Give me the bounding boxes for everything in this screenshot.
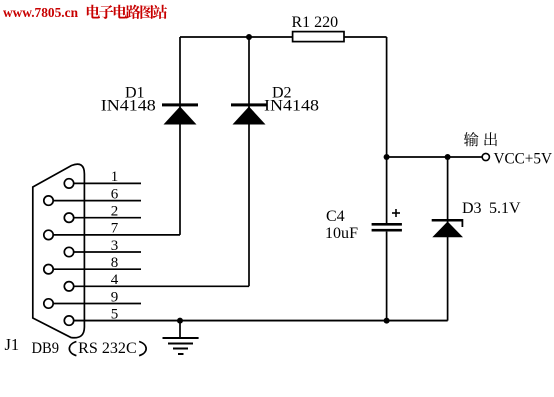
ground [163, 321, 199, 354]
label 输出 [464, 132, 479, 146]
resistor R1 [293, 32, 344, 42]
svg-text:IN4148: IN4148 [264, 98, 319, 115]
pin 8 circle [44, 265, 53, 274]
svg-text:1: 1 [111, 169, 119, 185]
pin 2 wire [74, 217, 141, 219]
svg-text:9: 9 [111, 289, 119, 305]
pin 4 circle [64, 282, 73, 291]
svg-text:J1: J1 [5, 335, 20, 354]
svg-text:RS 232C: RS 232C [78, 340, 137, 357]
pin 2 circle [64, 213, 73, 222]
svg-text:C4: C4 [326, 208, 345, 225]
label fullwidth close paren [139, 342, 146, 356]
svg-text:5: 5 [111, 306, 119, 322]
svg-text:3: 3 [111, 238, 119, 254]
wire D3 branch vertical [447, 157, 449, 321]
svg-text:R1 220: R1 220 [292, 14, 339, 31]
capacitor C4 [372, 209, 402, 232]
pin 5 wire [74, 320, 448, 322]
pin 1 wire [74, 182, 141, 184]
label fullwidth open paren [69, 342, 76, 356]
svg-text:VCC+5V: VCC+5V [494, 151, 553, 168]
wire right rail lower [386, 232, 388, 321]
pin 8 wire [53, 268, 141, 270]
zener diode D3 [432, 219, 464, 237]
wire output line [387, 156, 483, 158]
node junction bottom / rail [384, 318, 390, 324]
site header text 电子电路图站 [87, 5, 100, 19]
svg-text:2: 2 [111, 204, 119, 220]
svg-text:7: 7 [111, 221, 119, 237]
node junction output / D3 [445, 154, 451, 160]
pin 3 wire [74, 251, 141, 253]
node junction rail / output [384, 154, 390, 160]
svg-text:6: 6 [111, 186, 119, 202]
pin 1 circle [64, 179, 73, 188]
pin 7 circle [44, 230, 53, 239]
pin 3 circle [64, 247, 73, 256]
svg-text:www.7805.cn: www.7805.cn [3, 6, 78, 21]
terminal output circle [482, 153, 489, 160]
svg-text:10uF: 10uF [325, 225, 358, 242]
wire top bus [180, 36, 387, 38]
diode D1 [162, 103, 198, 124]
wire right rail upper [386, 37, 388, 223]
svg-text:8: 8 [111, 255, 119, 271]
pin 6 circle [44, 196, 53, 205]
svg-text:DB9: DB9 [32, 340, 60, 357]
svg-text:IN4148: IN4148 [101, 98, 156, 115]
pin 9 circle [44, 299, 53, 308]
svg-text:4: 4 [111, 272, 119, 288]
diode D2 [231, 103, 267, 124]
wire D1 branch vertical [179, 37, 181, 235]
pin 6 wire [53, 200, 141, 202]
wire D2 branch vertical [248, 37, 250, 286]
pin 5 circle [64, 316, 73, 325]
node junction bottom / ground [177, 318, 183, 324]
svg-text:D3: D3 [462, 200, 482, 217]
pin 9 wire [53, 303, 141, 305]
pin 4 wire [74, 285, 249, 287]
svg-text:5.1V: 5.1V [489, 200, 521, 217]
pin 7 wire [53, 234, 180, 236]
wire bottom bus (pin5/ground) [74, 320, 448, 322]
connector J1 DB9 shell [33, 164, 85, 338]
node junction top bus / D2 [246, 34, 252, 40]
